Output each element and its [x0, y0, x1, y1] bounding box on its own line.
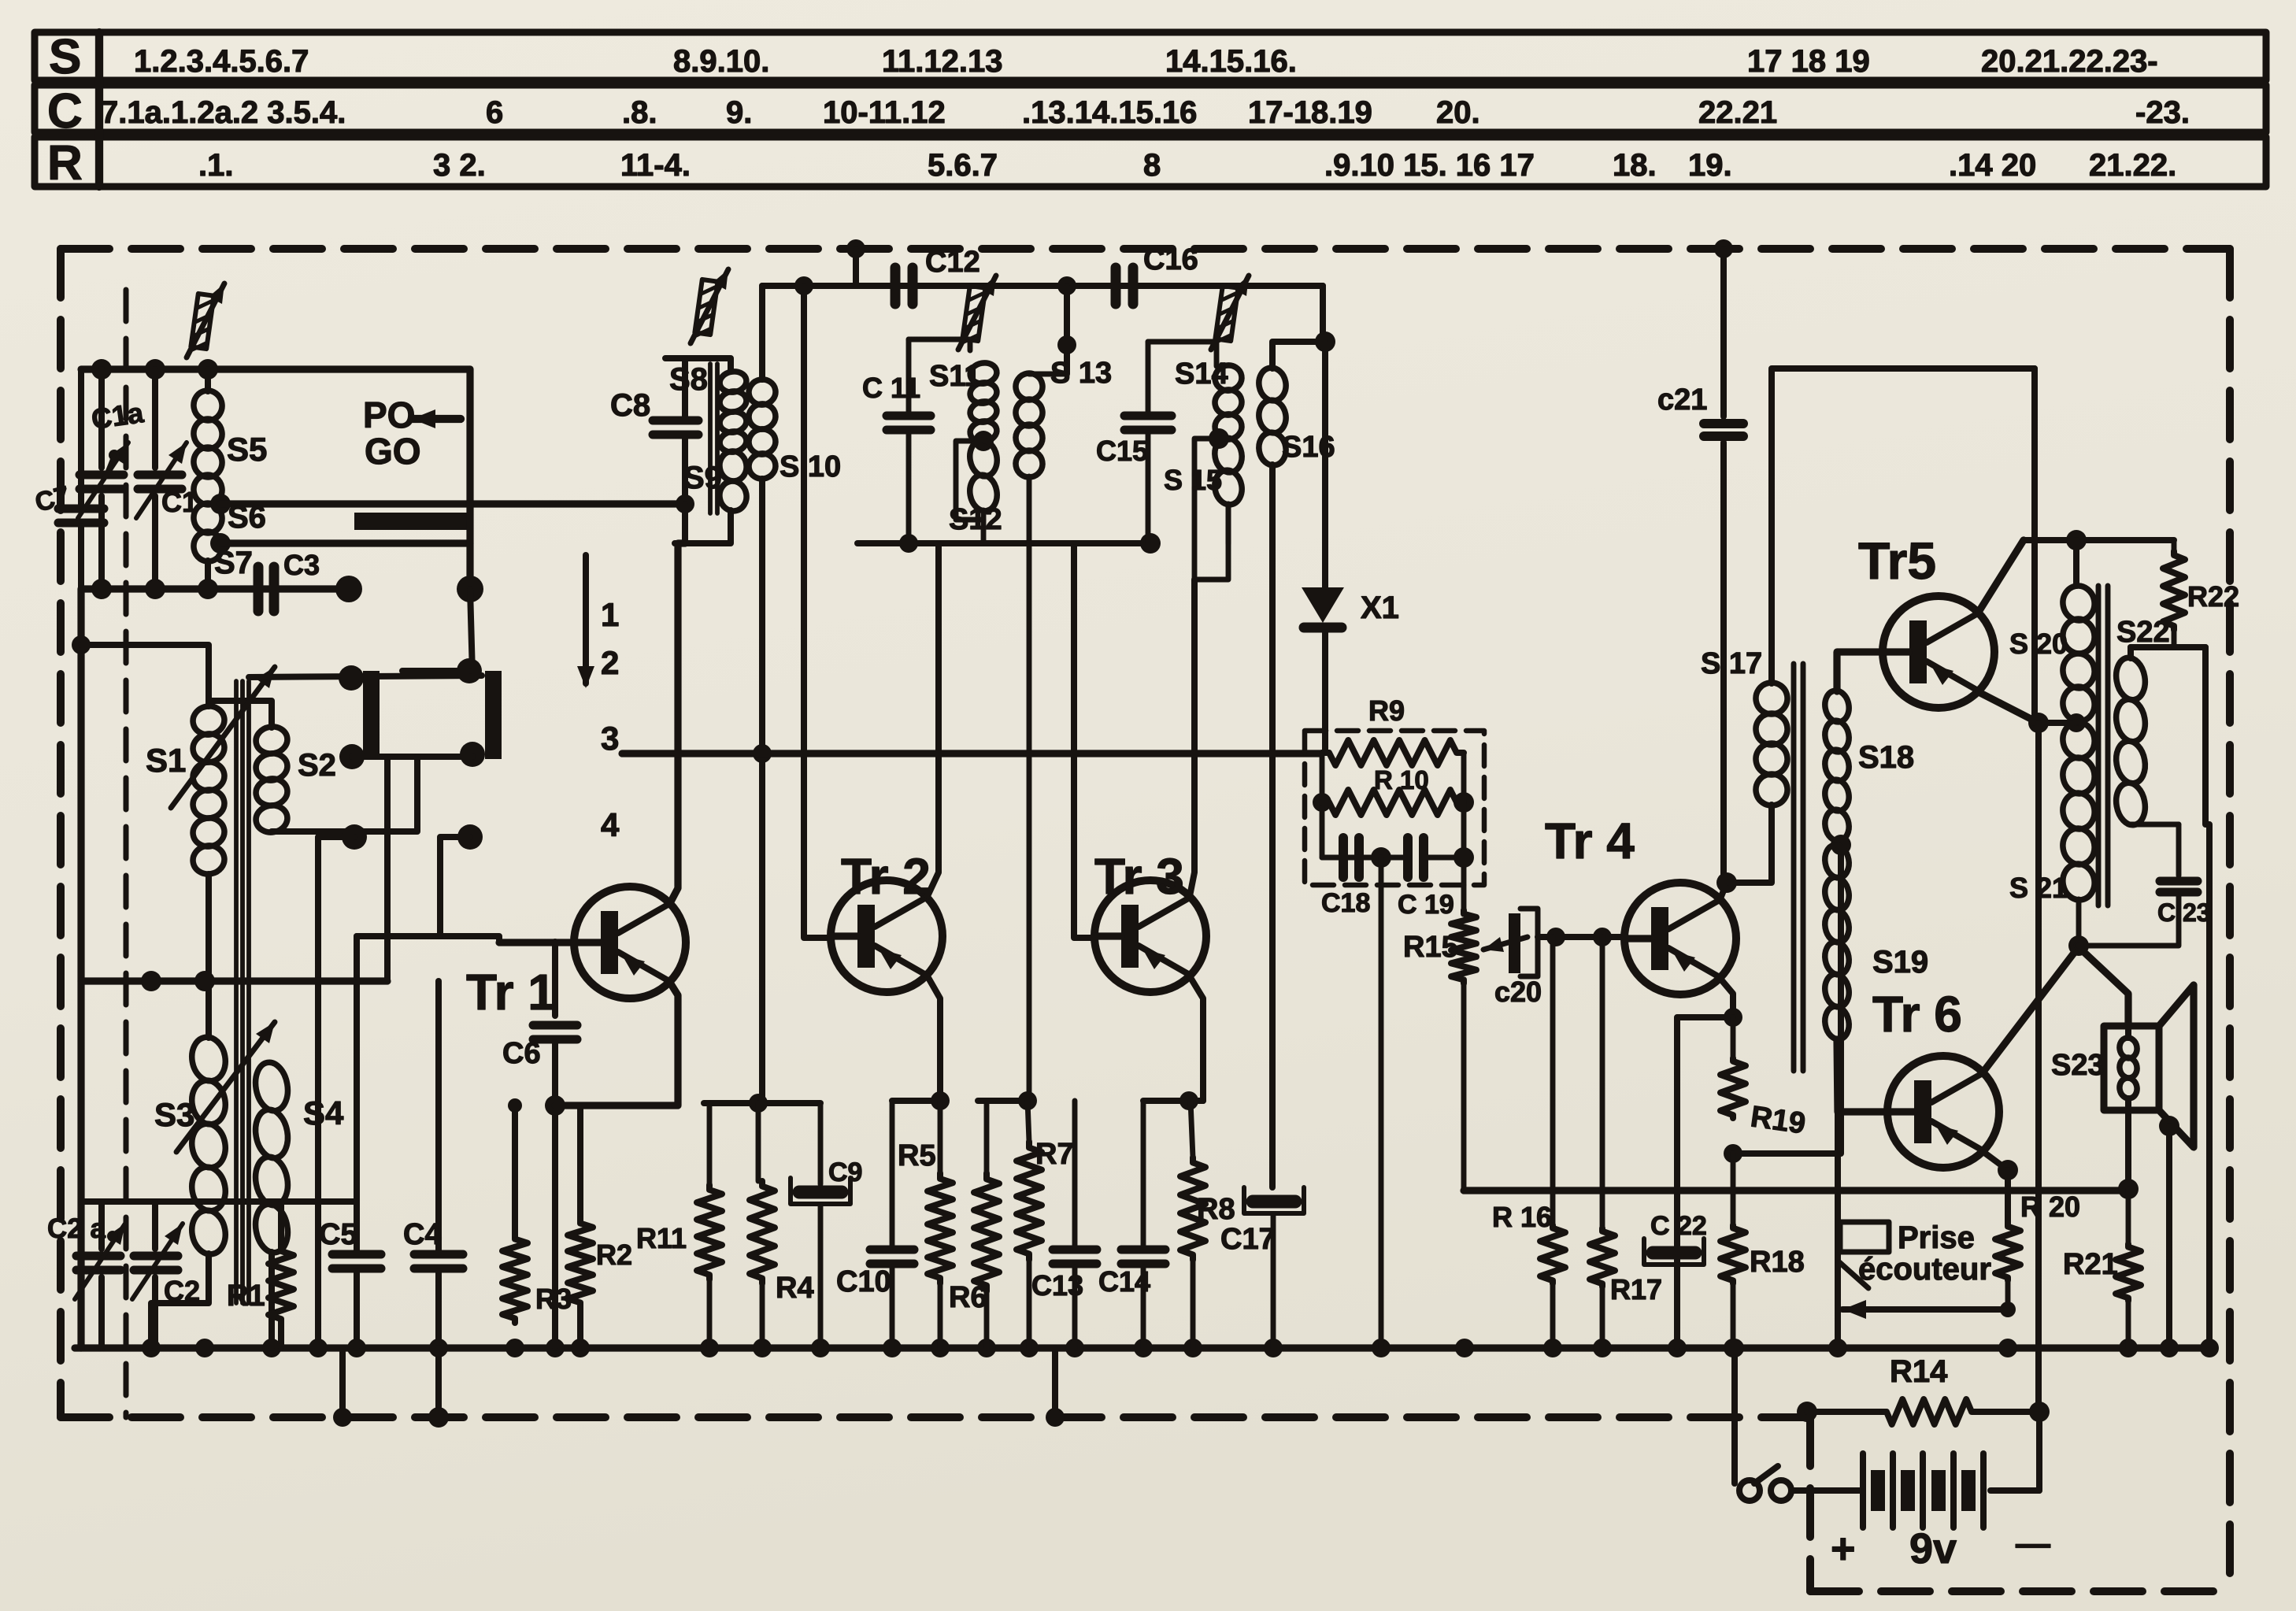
PO arrow [412, 415, 461, 423]
svg-text:C14: C14 [1098, 1265, 1150, 1298]
wire S6 line [220, 500, 685, 507]
node dot S16 top [1315, 331, 1335, 352]
transistor Tr5 [1883, 596, 1994, 708]
svg-text:R7: R7 [1035, 1138, 1074, 1171]
svg-text:C8: C8 [610, 388, 650, 423]
resistor R16 [1540, 1225, 1565, 1283]
capacitor C7 [78, 369, 84, 506]
node dot left rail [72, 635, 91, 654]
node dot [749, 1094, 768, 1113]
node dot [91, 579, 112, 599]
switch pad bar 1 [363, 671, 380, 759]
table outer frame S row [35, 32, 2266, 80]
svg-text:9.: 9. [726, 95, 752, 130]
node dot C8 foot [676, 494, 694, 513]
resistor R14 [1807, 1409, 1882, 1415]
tuning arrow S1 [171, 667, 275, 808]
node R14 right dot [2029, 1402, 2050, 1422]
coil S2 [209, 701, 272, 728]
coil S16 [1272, 342, 1325, 368]
svg-text:C15: C15 [1096, 435, 1148, 467]
wire R2 foot [577, 1307, 583, 1348]
ground bus junction dot x=2201 [1724, 1339, 1742, 1357]
dashed border left [57, 249, 65, 1417]
transistor Tr1 [574, 887, 686, 998]
capacitor C6 [533, 1021, 577, 1030]
wire Tr1 emitter [555, 983, 678, 1105]
wire core top to pads [249, 676, 482, 677]
resistor R1 [278, 1202, 284, 1247]
capacitor C8 top leg [682, 358, 688, 418]
svg-text:3: 3 [601, 720, 619, 757]
wire R11 top [707, 1103, 713, 1185]
capacitor C14 [1141, 1101, 1146, 1246]
coil S10 [746, 377, 777, 406]
node C18-C19 dot [1371, 847, 1391, 868]
capacitor C20 [1509, 913, 1520, 973]
antenna symbol 4 [1215, 286, 1239, 345]
wire R9-R10 right leg [1461, 753, 1467, 885]
svg-text:+: + [1831, 1525, 1856, 1572]
wire switch to battery [1791, 1487, 1863, 1494]
svg-text:S 17: S 17 [1701, 647, 1762, 680]
svg-text:S6: S6 [228, 500, 266, 535]
resistor R11 [697, 1185, 722, 1280]
wire S19 bottom to Tr6 base [1837, 1039, 1887, 1112]
wire S21 bottom [2076, 899, 2082, 946]
ground bus junction dot x=2806 [2200, 1339, 2219, 1357]
wire R6 foot [984, 1291, 990, 1348]
svg-text:S18: S18 [1858, 740, 1914, 775]
node dot switch feed [1725, 1339, 1744, 1357]
node dot [309, 1339, 328, 1357]
coil S18 [1823, 689, 1851, 724]
resistor R5 [938, 1101, 943, 1173]
svg-text:R1: R1 [227, 1280, 265, 1313]
wire S17 bottom [1729, 805, 1772, 883]
node dot [194, 971, 215, 991]
ground bus junction dot x=1194 [931, 1339, 950, 1357]
coil S19 [1823, 843, 1852, 880]
svg-text:S3: S3 [154, 1096, 194, 1133]
wire Tr3 rail segment 2 [1143, 1098, 1203, 1104]
wire R19-R18 node to tap [1733, 845, 1841, 1154]
wire pad2 stub [402, 668, 469, 674]
wire S11 box left [906, 339, 912, 415]
svg-text:R11: R11 [636, 1222, 687, 1254]
node R10 left dot [1313, 793, 1331, 812]
trimmer C1a [98, 369, 105, 468]
svg-text:C2: C2 [164, 1275, 200, 1307]
node dot [1018, 1091, 1037, 1110]
transistor Tr2 [831, 880, 942, 992]
wire S13 leads [1029, 372, 1067, 377]
wire S10 bottom [759, 479, 765, 1103]
wire C19 to right leg [1427, 855, 1464, 861]
transformer core S1/S2 [234, 681, 239, 1303]
svg-text:C: C [47, 84, 83, 139]
capacitor C15 [1124, 412, 1172, 420]
ground bus junction dot x=968 [753, 1339, 772, 1357]
wire S1-S3 link [206, 874, 212, 1038]
node dot [198, 579, 218, 599]
wire pad rail drop [384, 757, 391, 981]
wire S22 right leg [2205, 647, 2209, 1348]
ground bus junction dot x=1253 [977, 1339, 996, 1357]
capacitor C12 [891, 268, 901, 304]
svg-text:R2: R2 [596, 1239, 632, 1271]
wire Tr6 emitter diag [1983, 1152, 2008, 1170]
wire C21 to Tr4 collector [1720, 443, 1727, 878]
svg-text:R21: R21 [2063, 1248, 2118, 1281]
svg-text:Tr 4: Tr 4 [1545, 813, 1635, 869]
wire C20 to Tr4 base [1538, 934, 1624, 940]
transistor Tr3 [1094, 880, 1206, 992]
wire C9 drop [818, 1103, 824, 1184]
svg-text:S7: S7 [214, 546, 253, 580]
svg-text:20.: 20. [1436, 95, 1480, 130]
ground bus junction dot x=192 [142, 1339, 161, 1357]
node S20 top dot [2066, 530, 2087, 550]
svg-text:10-11.12: 10-11.12 [823, 95, 946, 130]
wire Tr6 emitter drop [2005, 1170, 2011, 1224]
switch pad dot 2b [460, 742, 485, 767]
coil S1 [191, 704, 227, 737]
capacitor C10 [890, 1101, 895, 1246]
switch pad dot 2 [457, 658, 482, 683]
wire Tr2 base feed [804, 286, 831, 938]
svg-text:2: 2 [601, 644, 619, 681]
wire S8 box top [665, 358, 731, 372]
wire R7 foot [1027, 1260, 1032, 1348]
junction dot on top border (node B) [1714, 239, 1733, 258]
node dot after C3 [335, 576, 362, 602]
coil S3 [188, 1035, 228, 1083]
wire bias rail [1464, 1187, 2128, 1194]
svg-text:R6: R6 [949, 1281, 987, 1314]
ground bus junction dot x=1515 [1183, 1339, 1202, 1357]
switch contact circles [1739, 1480, 1760, 1501]
coil S9 [717, 449, 749, 483]
svg-text:9v: 9v [1909, 1525, 1957, 1572]
wire speaker top [2125, 994, 2131, 1038]
stub to bottom border [339, 1348, 346, 1417]
svg-text:Tr 2: Tr 2 [841, 848, 931, 905]
switch lever [1754, 1466, 1778, 1483]
ground bus junction dot x=2550 [1998, 1339, 2017, 1357]
ground bus junction dot x=1365 [1065, 1339, 1084, 1357]
wire R4 drop [756, 1103, 761, 1181]
wire Tr2 rail segment [704, 1100, 820, 1106]
stub2 to bottom border [1052, 1348, 1058, 1417]
wire pad rail [352, 754, 472, 760]
wire S12 bottom [981, 510, 987, 543]
R15 wiper arrow [1483, 937, 1528, 950]
ground bus junction dot x=1452 [1134, 1339, 1153, 1357]
svg-text:.14 20: .14 20 [1949, 148, 2036, 183]
resistor R15 potentiometer [1451, 910, 1476, 983]
wire input top rail [81, 365, 470, 372]
diode X1 [1302, 587, 1344, 623]
coil S17 [1753, 680, 1790, 717]
wire emitter to C22 line [1677, 1017, 1733, 1348]
svg-text:17-18.19: 17-18.19 [1248, 95, 1372, 130]
wire S11 tap [956, 441, 983, 520]
wire lower pad 2 drop [440, 837, 499, 942]
wire S2 bottom link [272, 757, 417, 831]
dashed battery-bay left [1806, 1417, 1814, 1591]
wire C8 down [682, 438, 688, 504]
node dot [1179, 1091, 1198, 1110]
wire tap link [2039, 720, 2076, 726]
node dot C6 foot [545, 1095, 565, 1116]
node Tr6 emitter dot [1998, 1160, 2018, 1180]
antenna symbol 1 [191, 294, 214, 353]
svg-text:S: S [49, 30, 81, 84]
svg-text:c20: c20 [1494, 976, 1542, 1008]
wire R11 foot [707, 1280, 713, 1348]
ground bus junction dot x=260 [195, 1339, 214, 1357]
svg-text:R15: R15 [1403, 931, 1458, 964]
wire S21 to speaker [2077, 946, 2128, 1026]
wire R18 foot [1731, 1283, 1736, 1348]
resistor R2 [568, 1219, 593, 1307]
svg-text:R3: R3 [535, 1283, 572, 1315]
node dot [931, 1091, 950, 1110]
capacitor C19 [1403, 838, 1413, 877]
svg-text:écouteur: écouteur [1858, 1252, 1991, 1287]
svg-text:R9: R9 [1368, 694, 1405, 727]
wire Tr3 collector [1190, 580, 1194, 896]
svg-text:C5: C5 [319, 1218, 357, 1251]
wire Tr4 collector [1720, 883, 1727, 898]
wire S4 bottom to bus [268, 1252, 275, 1348]
wire osc mid bus [81, 977, 387, 984]
svg-text:C 19: C 19 [1398, 890, 1454, 920]
wire Tr1 collector [670, 543, 685, 903]
capacitor C5 [354, 1202, 360, 1252]
switch position arrow [583, 555, 589, 683]
svg-text:X1: X1 [1361, 591, 1399, 625]
coil S13 [1013, 371, 1044, 402]
wire R4 foot [760, 1283, 765, 1348]
wire Tr3 base [1074, 543, 1094, 938]
node S21 bottom dot [2068, 935, 2089, 956]
wire Tr4 emitter [1720, 979, 1733, 1017]
resistor R22 [2172, 540, 2177, 551]
wire -9V long drop [2035, 723, 2042, 1412]
ground bus junction dot x=557 [429, 1339, 448, 1357]
svg-text:S1: S1 [146, 742, 186, 779]
wire -9V rail right leg [2031, 368, 2038, 723]
svg-text:R4: R4 [776, 1272, 814, 1305]
wire S7 line [220, 539, 470, 546]
wire Tr2 collector [928, 543, 939, 896]
svg-text:S5: S5 [227, 431, 267, 468]
capacitor C18 [1339, 838, 1348, 877]
ground bus junction dot x=2703 [2119, 1339, 2138, 1357]
capacitor C4 [435, 981, 442, 1252]
svg-text:5.6.7: 5.6.7 [928, 148, 998, 183]
dashed border top [61, 245, 2230, 253]
node dot R3 top [508, 1098, 522, 1113]
ground bus junction dot x=2035 [1593, 1339, 1612, 1357]
wire top border drop [853, 249, 859, 286]
coil S20 [2073, 540, 2079, 586]
node horn dot [2159, 1116, 2179, 1136]
node right-leg dot [1454, 847, 1474, 868]
wire Tr3 emitter [1190, 976, 1203, 1101]
node S14 tap dot [1209, 428, 1229, 449]
node Tr4 collector dot [1716, 872, 1737, 893]
svg-text:C 23: C 23 [2157, 898, 2211, 927]
speaker frame [2104, 1026, 2159, 1110]
dashed battery-bay bottom [1810, 1587, 2230, 1595]
wire Tr3 rail segment [978, 1098, 1031, 1104]
svg-text:S8: S8 [669, 362, 708, 397]
node jack dot [2000, 1302, 2016, 1317]
svg-text:C9: C9 [828, 1157, 862, 1187]
resistor R8 [1191, 1101, 1193, 1157]
trimmer C2a [98, 1202, 105, 1249]
coil S4 [252, 1060, 291, 1113]
wire C23 down [2079, 896, 2179, 946]
wire PO/GO box right leg [466, 369, 473, 589]
wire Tr2 rail segment 2 [892, 1098, 940, 1104]
jack lever [1839, 1262, 1868, 1288]
svg-text:S11: S11 [929, 360, 981, 393]
svg-text:Prise: Prise [1898, 1220, 1975, 1255]
dashed border bottom [61, 1413, 1808, 1421]
node dot rail [794, 276, 813, 295]
capacitor C21 [1704, 419, 1743, 428]
ground bus junction dot x=1617 [1264, 1339, 1283, 1357]
svg-text:PO: PO [363, 394, 415, 435]
wire S18 top to Tr5 base [1837, 652, 1883, 691]
svg-text:C13: C13 [1031, 1269, 1083, 1302]
wire R9-R10 left leg [1320, 753, 1325, 857]
svg-text:R14: R14 [1890, 1354, 1948, 1389]
svg-text:S4: S4 [303, 1094, 344, 1131]
wire collector rail [2024, 537, 2174, 543]
capacitor C3 [254, 567, 264, 611]
junction dot on top border (node A) [846, 239, 865, 258]
dashed gang-tuning link line [124, 290, 129, 1417]
capacitor C23 [2176, 824, 2182, 876]
wire -9V rail top [1772, 368, 2035, 683]
table outer frame R row [35, 137, 2266, 187]
ground bus junction dot x=345 [262, 1339, 281, 1357]
wire R5 foot [938, 1283, 943, 1348]
wire R17 drop [1600, 937, 1605, 1228]
svg-text:18.: 18. [1613, 148, 1657, 183]
wire S14 box top [1148, 342, 1217, 366]
resistor R3 [502, 1235, 528, 1323]
svg-text:S 10: S 10 [780, 450, 841, 483]
coil S22 [2128, 647, 2134, 658]
wire C6 down [552, 1043, 558, 1105]
svg-text:C6: C6 [502, 1037, 541, 1070]
svg-text:R5: R5 [898, 1139, 936, 1172]
svg-text:R 10: R 10 [1374, 765, 1429, 794]
svg-text:C4: C4 [403, 1218, 442, 1251]
ground bus junction dot x=453 [347, 1339, 366, 1357]
wire Tr1 base lead [499, 939, 574, 946]
ground bus junction dot x=1860 [1455, 1339, 1474, 1357]
svg-text:R8: R8 [1197, 1193, 1235, 1226]
trimmer C2 [152, 1202, 158, 1249]
node R14 left dot [1797, 1402, 1817, 1422]
svg-text:8.9.10.: 8.9.10. [673, 44, 769, 79]
ferrite rod bar [354, 513, 467, 530]
svg-text:S14: S14 [1175, 357, 1228, 391]
svg-text:6: 6 [486, 95, 503, 130]
speaker coil S23 [2118, 1036, 2139, 1059]
transformer core S8/S9 [708, 364, 713, 513]
node dot [145, 359, 165, 380]
svg-text:S12: S12 [949, 503, 1002, 536]
resistor R9 [1322, 740, 1464, 765]
wire C5 riser [354, 936, 360, 1202]
wire S13 down to R7 [1027, 543, 1032, 1103]
switch pad bar 2 [485, 671, 502, 759]
svg-text:21.22.: 21.22. [2089, 148, 2176, 183]
node dot [198, 359, 218, 380]
switch pad lower dot 2 [457, 824, 483, 850]
node S11 tap dot [973, 431, 994, 451]
wire C18-C19 link [1322, 855, 1405, 861]
wire S13 top [1064, 286, 1070, 374]
svg-text:S2: S2 [298, 748, 336, 783]
antenna symbol 3 [962, 286, 986, 345]
wire R20 foot [2005, 1280, 2011, 1309]
coil S8 [718, 369, 748, 394]
dot2 on bottom border [1046, 1408, 1065, 1427]
table outer frame C row [35, 85, 2266, 132]
ground bus junction dot x=1133 [883, 1339, 902, 1357]
svg-text:C2 a: C2 a [47, 1213, 106, 1244]
svg-text:C3: C3 [283, 549, 320, 581]
transistor Tr6 [1887, 1056, 1999, 1168]
wire R21 foot [2126, 1301, 2131, 1348]
transistor Tr4 [1624, 883, 1736, 994]
node dot [1546, 928, 1565, 946]
svg-text:Tr5: Tr5 [1858, 531, 1936, 590]
svg-text:S 20: S 20 [2009, 628, 2068, 660]
wire S9 bottom [675, 510, 731, 543]
switch pad dot 1b [339, 744, 365, 769]
svg-text:11-4.: 11-4. [620, 148, 691, 183]
capacitor C22 [1653, 1246, 1695, 1260]
svg-text:C12: C12 [925, 246, 980, 279]
wire X1 top [1322, 342, 1328, 587]
wire S22 bottom [2131, 822, 2179, 828]
svg-text:C10: C10 [836, 1265, 891, 1298]
wire R16 foot [1550, 1283, 1556, 1348]
svg-text:C17: C17 [1220, 1223, 1276, 1256]
svg-text:R 20: R 20 [2020, 1191, 2080, 1223]
node dot PO/GO leg [457, 576, 483, 602]
svg-text:20.21.22.23-: 20.21.22.23- [1981, 44, 2158, 79]
wire C15 down [1146, 433, 1151, 543]
ground bus wire [75, 1344, 2209, 1351]
antenna symbol 2 [694, 280, 718, 339]
wire Tr2 emitter [928, 976, 940, 1101]
speaker horn [2159, 985, 2194, 1147]
coil S21 [2060, 720, 2097, 761]
coil S5 [205, 369, 211, 391]
wire speaker bottom [2125, 1098, 2131, 1189]
